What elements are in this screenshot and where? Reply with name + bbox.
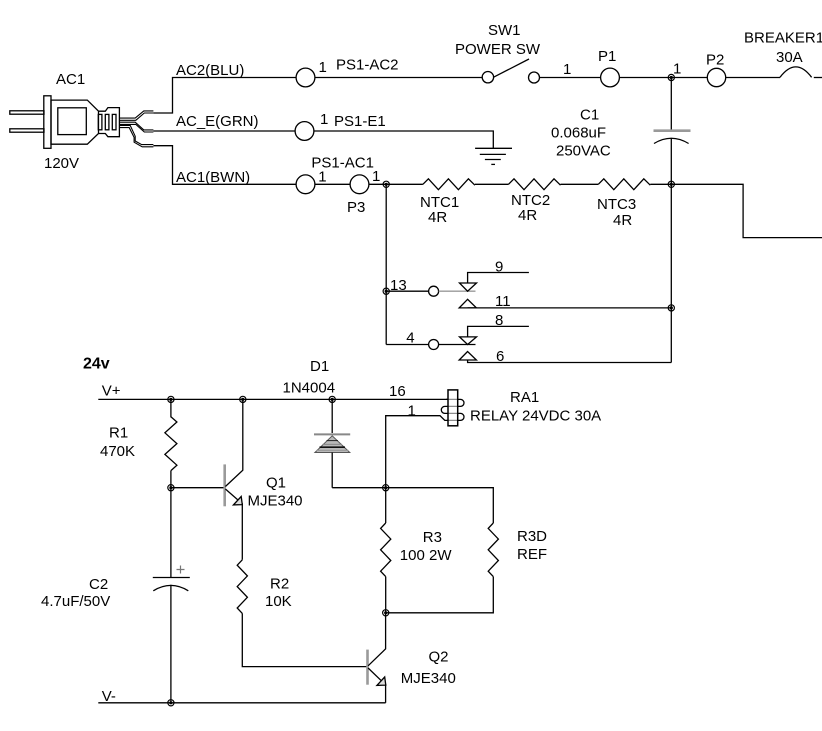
- switch SW1: [482, 59, 539, 83]
- wire NTC2 to NTC3: [561, 183, 599, 185]
- resistor R3: [381, 488, 391, 613]
- wire PS1-E1 to ground: [314, 131, 493, 148]
- relay contact common K2: [429, 340, 439, 350]
- relay NC contact (pin 8): [460, 337, 477, 345]
- svg-text:1N4004: 1N4004: [283, 380, 336, 397]
- breaker BREAKER1 30A: [780, 67, 812, 77]
- svg-text:C2: C2: [89, 576, 108, 593]
- wire pin4 to contact: [386, 344, 428, 346]
- svg-text:1: 1: [319, 59, 327, 76]
- svg-text:MJE340: MJE340: [248, 493, 303, 510]
- svg-text:24v: 24v: [83, 356, 110, 373]
- wire plug lead AC2 (crimp): [119, 111, 153, 120]
- junction node Q2 collector: [383, 610, 389, 616]
- junction node Q1 collector top: [240, 396, 246, 402]
- connector AC1 (mains plug): [10, 96, 120, 149]
- junction node AC1: [383, 181, 389, 187]
- wire R1 to Q1 base: [171, 487, 225, 489]
- connector PS1-AC2 pin 1: [296, 68, 315, 87]
- wire R2 to Q2 base: [242, 613, 366, 666]
- svg-text:1: 1: [318, 169, 326, 186]
- svg-text:100 2W: 100 2W: [400, 547, 453, 564]
- svg-text:4R: 4R: [613, 212, 632, 229]
- relay NO contact (pin 6): [459, 352, 476, 361]
- wire C1 down to contacts: [670, 184, 672, 362]
- svg-text:PS1-E1: PS1-E1: [334, 113, 386, 130]
- resistor R1: [165, 399, 177, 487]
- junction node NTC/C1: [668, 181, 674, 187]
- connector P1: [601, 68, 620, 87]
- wire pin 6: [468, 360, 672, 363]
- connector P2: [707, 68, 725, 86]
- svg-text:C1: C1: [580, 107, 599, 124]
- svg-text:MJE340: MJE340: [401, 670, 456, 687]
- wire P2 to breaker: [726, 77, 780, 79]
- svg-text:1: 1: [408, 403, 416, 420]
- svg-text:1: 1: [372, 168, 380, 185]
- junction node pin13: [383, 288, 389, 294]
- wire SW1 to P1: [540, 77, 601, 79]
- transistor Q2: [368, 613, 386, 703]
- wire to P3: [315, 183, 350, 185]
- junction node R1 bottom: [168, 485, 174, 491]
- capacitor C1: [654, 78, 691, 185]
- wire AC1(BWN): [153, 146, 296, 185]
- wire pin 11: [468, 307, 672, 309]
- wire contact common K2: [439, 344, 476, 346]
- wire plug lead AC1 (crimp): [119, 125, 153, 146]
- wire pin 8: [468, 326, 529, 337]
- svg-text:16: 16: [389, 383, 406, 400]
- svg-text:NTC3: NTC3: [597, 196, 636, 213]
- junction node R1 top: [168, 396, 174, 402]
- svg-text:R1: R1: [109, 425, 128, 442]
- wire P1 to node: [620, 77, 707, 79]
- svg-text:POWER SW: POWER SW: [455, 41, 541, 58]
- junction node C1 top: [668, 74, 674, 80]
- svg-text:Q1: Q1: [266, 475, 286, 492]
- svg-text:R2: R2: [270, 576, 289, 593]
- svg-text:1: 1: [320, 111, 328, 128]
- resistor NTC2: [509, 179, 561, 190]
- diode D1: [314, 399, 350, 487]
- junction node D1 bottom: [383, 485, 389, 491]
- wire NTC3 to node: [650, 183, 671, 185]
- wire NTC node to right edge (step): [671, 184, 822, 237]
- svg-text:1: 1: [673, 61, 681, 78]
- svg-text:REF: REF: [517, 546, 547, 563]
- wire contact common K1: [439, 290, 476, 292]
- wire node AC1 down: [385, 184, 387, 344]
- wire AC_E(GRN): [153, 130, 295, 132]
- svg-text:1: 1: [563, 61, 571, 78]
- svg-text:SW1: SW1: [488, 22, 521, 39]
- svg-text:R3D: R3D: [517, 528, 547, 545]
- svg-text:AC2(BLU): AC2(BLU): [176, 62, 244, 79]
- wire breaker to edge: [814, 77, 822, 79]
- svg-text:P1: P1: [598, 48, 616, 65]
- wire pin13 to contact: [386, 290, 428, 292]
- svg-text:Q2: Q2: [429, 649, 449, 666]
- svg-text:AC1(BWN): AC1(BWN): [176, 169, 250, 186]
- svg-text:10K: 10K: [265, 593, 292, 610]
- relay contact common K1: [429, 286, 439, 296]
- resistor NTC1: [423, 179, 475, 190]
- ground: [475, 148, 512, 164]
- wire PS1-AC2 to SW1: [315, 77, 482, 79]
- wire relay pin 1: [386, 416, 446, 488]
- svg-text:P3: P3: [347, 199, 365, 216]
- svg-text:RELAY 24VDC 30A: RELAY 24VDC 30A: [470, 408, 601, 425]
- junction node C2 bottom: [168, 700, 174, 706]
- wire AC2(BLU): [153, 78, 296, 114]
- resistor R2: [237, 560, 247, 614]
- svg-text:30A: 30A: [776, 49, 803, 66]
- svg-text:V+: V+: [102, 383, 121, 400]
- resistor R3D loop: [386, 488, 499, 613]
- svg-text:4.7uF/50V: 4.7uF/50V: [41, 593, 110, 610]
- svg-text:D1: D1: [310, 358, 329, 375]
- wire pin 9: [468, 273, 529, 284]
- svg-text:AC_E(GRN): AC_E(GRN): [176, 113, 259, 130]
- svg-text:R3: R3: [423, 529, 442, 546]
- connector P3 pin 1: [350, 175, 369, 194]
- wire plug lead AC_E (crimp): [119, 122, 153, 132]
- wire net V+: [98, 398, 448, 400]
- capacitor C2: [153, 488, 190, 703]
- svg-text:AC1: AC1: [56, 71, 85, 88]
- relay NO contact (pin 11): [459, 299, 476, 308]
- relay coil RA1: [441, 390, 464, 426]
- svg-text:PS1-AC2: PS1-AC2: [336, 57, 399, 74]
- connector PS1-AC1 pin 1: [296, 175, 315, 194]
- svg-text:RA1: RA1: [510, 389, 539, 406]
- transistor Q1: [225, 399, 243, 559]
- wire P3 to NTC1: [369, 183, 423, 185]
- svg-text:0.068uF: 0.068uF: [551, 125, 606, 142]
- svg-text:470K: 470K: [100, 443, 135, 460]
- wire NTC1 to NTC2: [475, 183, 509, 185]
- svg-text:120V: 120V: [44, 155, 79, 172]
- resistor NTC3: [598, 179, 650, 190]
- junction node pin11/C1: [668, 305, 674, 311]
- svg-text:P2: P2: [706, 52, 724, 69]
- svg-text:4R: 4R: [518, 207, 537, 224]
- connector PS1-E1 pin 1: [295, 122, 314, 141]
- svg-text:4R: 4R: [428, 209, 447, 226]
- junction node D1 top: [329, 396, 335, 402]
- svg-text:BREAKER1: BREAKER1: [744, 30, 822, 47]
- wire net V-: [98, 702, 385, 704]
- relay NC contact (pin 9): [460, 283, 477, 291]
- svg-text:250VAC: 250VAC: [556, 143, 611, 160]
- wire D1 to node: [332, 487, 386, 489]
